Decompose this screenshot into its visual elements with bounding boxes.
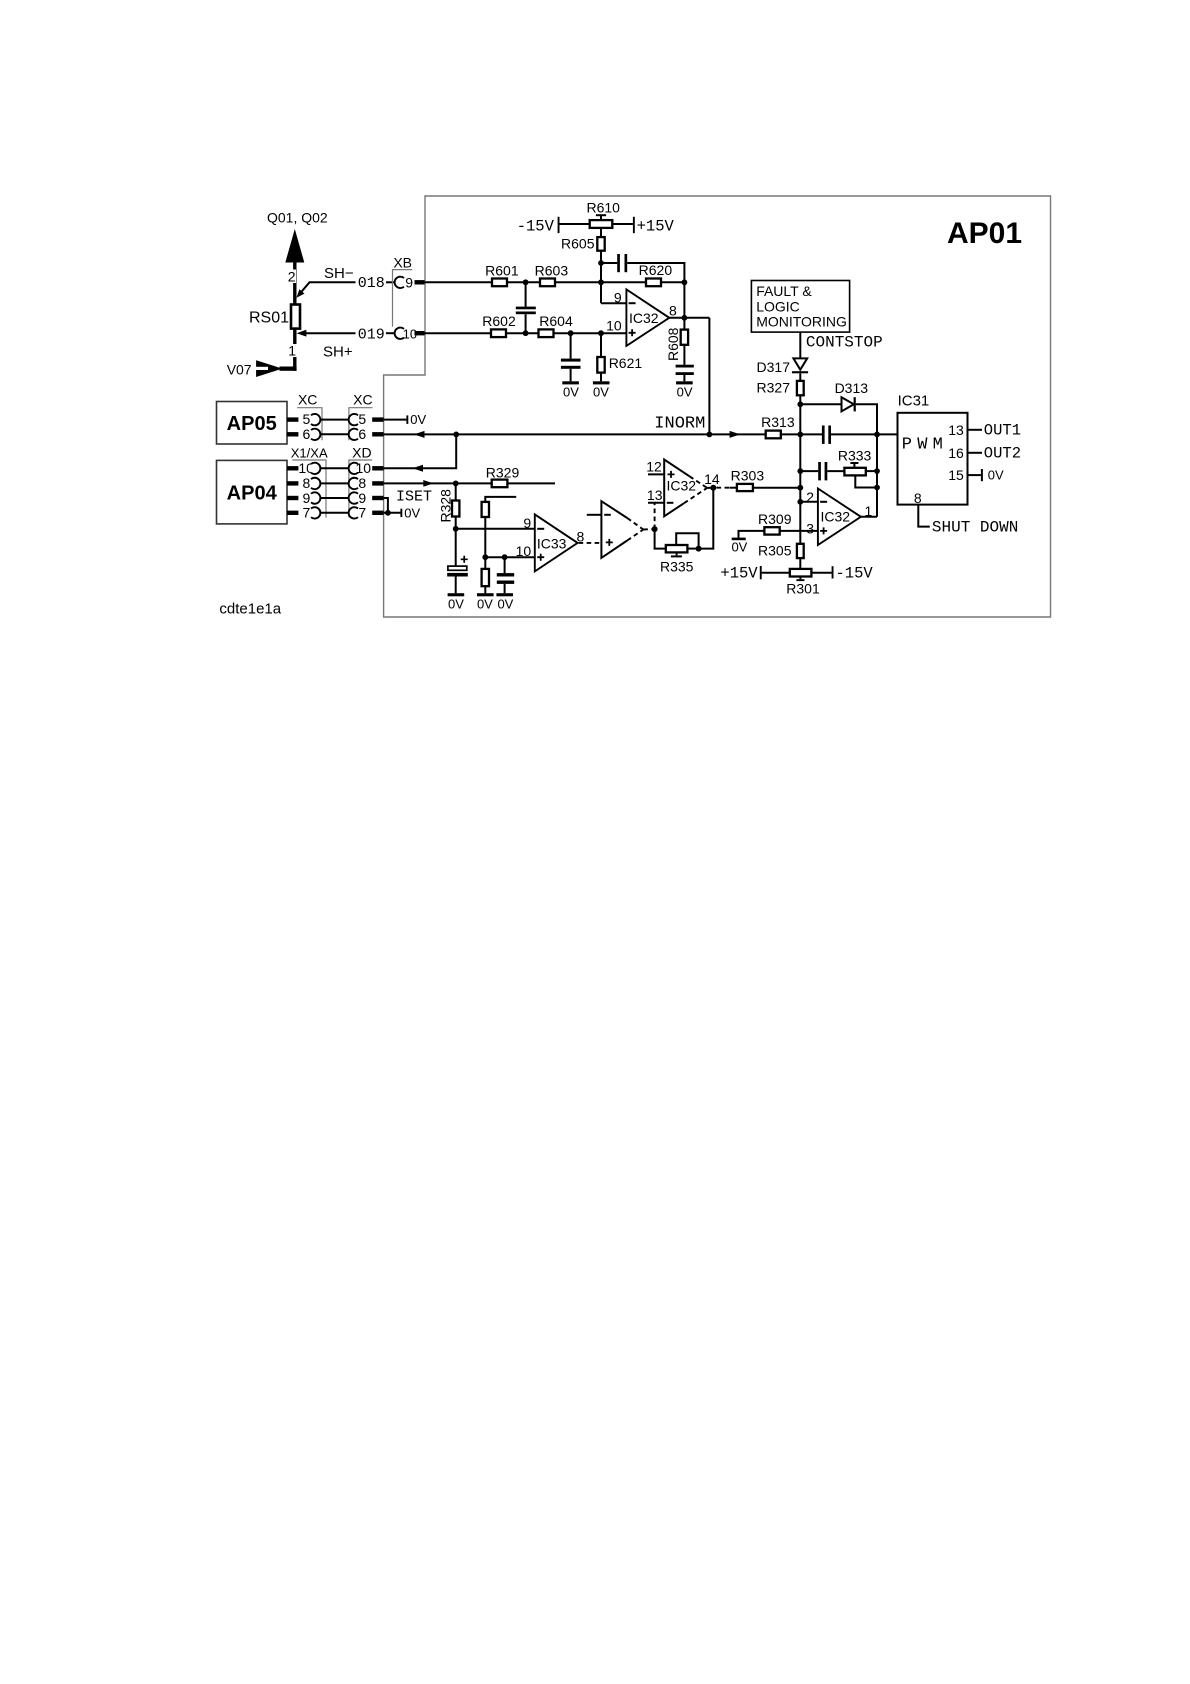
svg-text:INORM: INORM xyxy=(654,414,705,433)
junction pin9 node xyxy=(598,279,604,285)
svg-text:IC32: IC32 xyxy=(629,310,659,326)
arrowhead to XD10 xyxy=(412,465,423,472)
svg-text:7: 7 xyxy=(358,505,366,521)
arrowhead ISET xyxy=(423,480,433,487)
arrow to Q01,Q02 xyxy=(285,229,304,263)
svg-text:8: 8 xyxy=(358,475,366,491)
wire R604 to IC32 pin10 xyxy=(554,332,627,334)
wire XC5 xyxy=(320,419,349,421)
wire XC6 xyxy=(320,433,349,435)
diode D313 xyxy=(842,397,854,411)
svg-text:R605: R605 xyxy=(561,236,595,252)
svg-text:019: 019 xyxy=(358,326,385,343)
svg-text:8: 8 xyxy=(669,302,677,318)
wire phantom to R335 xyxy=(655,529,666,549)
svg-text:PWM: PWM xyxy=(902,436,948,455)
svg-text:9: 9 xyxy=(614,289,622,305)
resistor divider stub xyxy=(485,497,516,502)
svg-text:SH−: SH− xyxy=(324,265,354,282)
pin XD10 right xyxy=(349,463,358,474)
resistor R lower xyxy=(482,569,489,586)
svg-text:IC33: IC33 xyxy=(537,535,567,551)
wire XD10 INORM branch xyxy=(384,434,457,468)
svg-text:R621: R621 xyxy=(609,355,643,371)
svg-text:R602: R602 xyxy=(482,313,516,329)
wire to IC33 pin9 xyxy=(456,528,535,530)
svg-text:0V: 0V xyxy=(410,412,426,427)
svg-text:RS01: RS01 xyxy=(249,310,289,327)
ground under R621 xyxy=(593,381,610,384)
op-amp phantom buffer xyxy=(601,501,627,558)
wire 018 to XB9 xyxy=(386,281,395,283)
svg-text:9: 9 xyxy=(358,490,366,506)
svg-text:R328: R328 xyxy=(437,489,453,523)
op-amp IC32 pins 12,13,14 xyxy=(664,460,689,517)
block AP04 xyxy=(217,460,288,524)
junction divider node xyxy=(482,554,488,560)
adjust mark R301 xyxy=(799,577,801,580)
junction feedback column row1 xyxy=(682,279,688,285)
svg-text:-15V: -15V xyxy=(517,217,555,235)
junction XD7 node xyxy=(385,510,391,516)
wire R305 to R301 xyxy=(799,558,801,569)
wire R333 to output column xyxy=(866,470,877,472)
svg-text:8: 8 xyxy=(303,475,311,491)
wire D317 to R327 xyxy=(799,373,801,381)
svg-text:0V: 0V xyxy=(497,596,513,611)
wire XD10 xyxy=(320,467,349,469)
svg-text:XB: XB xyxy=(393,254,412,270)
wire XD9 to XD7 link xyxy=(384,498,388,513)
svg-text:0V: 0V xyxy=(448,596,464,611)
pin XD7 right xyxy=(349,507,358,518)
wire XB10 to R602 xyxy=(425,332,492,334)
svg-text:9: 9 xyxy=(523,515,531,531)
pin XD10 left xyxy=(287,466,298,470)
resistor R601 xyxy=(492,279,507,287)
svg-text:XC: XC xyxy=(353,392,372,408)
node B junction xyxy=(523,279,529,285)
svg-text:R327: R327 xyxy=(757,379,791,395)
svg-text:9: 9 xyxy=(405,274,413,290)
svg-text:D317: D317 xyxy=(757,359,791,375)
svg-text:14: 14 xyxy=(704,471,720,487)
junction pin8 xyxy=(682,315,688,321)
svg-text:0V: 0V xyxy=(593,384,609,399)
wire R303 to pin2 node xyxy=(753,487,800,489)
connector XB pin 10 xyxy=(395,328,404,339)
resistor R303 xyxy=(737,484,753,491)
rail -15V R301 xyxy=(811,572,831,574)
plus phantom xyxy=(606,539,613,546)
potentiometer R333 xyxy=(844,468,865,476)
svg-text:IC31: IC31 xyxy=(898,393,930,410)
svg-text:AP04: AP04 xyxy=(227,482,278,504)
svg-text:R313: R313 xyxy=(761,414,795,430)
svg-text:D313: D313 xyxy=(835,380,869,396)
svg-text:X1/XA: X1/XA xyxy=(291,445,328,460)
resistor R328 xyxy=(455,483,457,500)
svg-text:0V: 0V xyxy=(731,540,747,555)
wire to IC33 pin10 xyxy=(485,556,535,558)
resistor R603 xyxy=(540,279,555,287)
svg-text:R309: R309 xyxy=(758,511,792,527)
capacitor C602 xyxy=(570,333,572,359)
wire R333 wiper link xyxy=(855,475,877,487)
pin XD9 left xyxy=(287,496,298,500)
wire 019 to XB10 xyxy=(386,332,395,334)
wire C603 to feedback column xyxy=(627,263,684,318)
wire XD8 xyxy=(320,482,349,484)
svg-text:8: 8 xyxy=(914,490,922,506)
minus pin9 xyxy=(629,302,636,304)
wire SHUT DOWN xyxy=(918,505,930,527)
svg-text:018: 018 xyxy=(358,275,385,292)
pin XC6 right xyxy=(349,429,358,440)
wire shaft RS01 bottom xyxy=(293,329,296,371)
pin XC5 right xyxy=(349,414,358,425)
resistor R604 xyxy=(539,329,554,337)
wire SH- diagonal tap xyxy=(301,282,356,292)
pin 2 of RS01 xyxy=(288,270,297,284)
svg-text:5: 5 xyxy=(303,411,311,427)
svg-text:SHUT DOWN: SHUT DOWN xyxy=(932,519,1018,537)
ground under C602 xyxy=(562,381,579,384)
svg-text:R303: R303 xyxy=(731,468,765,484)
capacitor C313 xyxy=(822,426,825,444)
wire shaft RS01 top xyxy=(293,263,296,305)
wire pin9 into op-amp xyxy=(601,302,626,304)
connector XB pin 9 xyxy=(395,277,404,288)
arrowhead to XC6 xyxy=(414,431,425,438)
svg-text:IC32: IC32 xyxy=(667,478,697,494)
capacitor C333 xyxy=(800,470,818,472)
svg-text:15: 15 xyxy=(948,467,964,483)
op-amp IC33 xyxy=(535,514,578,571)
wire pin14 xyxy=(707,487,713,489)
junction R621 top xyxy=(598,330,604,336)
pin XC5 left xyxy=(287,417,298,421)
wire R610 to +15V xyxy=(612,223,633,225)
pin 1 of RS01 xyxy=(289,344,297,357)
junction C33 top xyxy=(502,554,508,560)
pin XD9 right xyxy=(349,492,358,503)
arrow V07 xyxy=(256,360,282,377)
svg-text:R610: R610 xyxy=(586,200,620,216)
svg-text:XD: XD xyxy=(352,444,371,460)
wire error node column xyxy=(799,404,801,544)
svg-text:R335: R335 xyxy=(660,559,694,575)
wire INORM feed down xyxy=(708,318,710,435)
svg-text:12: 12 xyxy=(646,459,662,475)
op-amp IC32 pins 2,3,1 xyxy=(818,489,861,546)
capacitor C601 between lines xyxy=(525,282,527,307)
wire D313 to output column xyxy=(856,404,877,517)
wire R620 to feedback column xyxy=(661,281,684,283)
svg-text:R620: R620 xyxy=(639,262,673,278)
wire R309 to pin3 xyxy=(780,530,818,532)
svg-text:Q01, Q02: Q01, Q02 xyxy=(267,210,328,226)
arrowhead INORM to R313 xyxy=(730,431,741,438)
wire pin2 xyxy=(800,501,818,503)
svg-text:OUT1: OUT1 xyxy=(984,422,1021,440)
svg-text:CONTSTOP: CONTSTOP xyxy=(806,333,883,351)
wire to D313 xyxy=(800,403,841,405)
svg-text:6: 6 xyxy=(303,426,311,442)
wire dashed pin14 to R303 xyxy=(717,487,732,489)
wire XD7 to 0V xyxy=(384,512,401,514)
wire node A to C603 xyxy=(601,262,617,264)
svg-text:2: 2 xyxy=(806,489,814,505)
svg-text:6: 6 xyxy=(358,426,366,442)
resistor R620 xyxy=(646,279,661,287)
svg-text:0V: 0V xyxy=(477,596,493,611)
node A junction xyxy=(598,260,604,266)
svg-text:16: 16 xyxy=(948,445,964,461)
wire R313 to C313 xyxy=(781,433,822,435)
svg-text:OUT2: OUT2 xyxy=(984,445,1021,463)
AP01 card outline xyxy=(384,196,1051,617)
resistor R605 xyxy=(597,237,604,251)
wire -15V to R610 xyxy=(560,223,590,225)
svg-text:0V: 0V xyxy=(563,384,579,399)
wire XD7 xyxy=(320,512,349,514)
wire R327 down xyxy=(799,395,801,404)
svg-text:SH+: SH+ xyxy=(323,344,353,361)
rail +15V xyxy=(633,217,635,233)
ground under divider xyxy=(477,593,494,596)
svg-text:R333: R333 xyxy=(838,447,872,463)
junction C601 bottom xyxy=(523,330,529,336)
op-amp IC32 pins 9,10,8 xyxy=(626,289,669,346)
wire pin8 output xyxy=(669,317,709,319)
pin XD7 left xyxy=(287,511,298,515)
plus pin10 xyxy=(629,329,636,336)
svg-text:5: 5 xyxy=(358,411,366,427)
pin XC6 left xyxy=(287,432,298,436)
wire pin1 output xyxy=(861,516,877,518)
wire R603 to pin9 node xyxy=(555,281,646,283)
ground under C608 xyxy=(676,381,693,384)
svg-text:13: 13 xyxy=(948,422,964,438)
wire phantom output dashed xyxy=(643,528,654,530)
potentiometer R335 xyxy=(666,545,688,552)
svg-text:2: 2 xyxy=(288,269,296,285)
wire IC33 output dashed xyxy=(579,542,602,544)
svg-text:10: 10 xyxy=(606,317,622,333)
svg-text:R601: R601 xyxy=(485,262,519,278)
svg-text:V07: V07 xyxy=(227,362,252,378)
svg-text:R604: R604 xyxy=(539,313,573,329)
arrowhead SH- xyxy=(296,289,304,298)
wire XB9 to R601 xyxy=(425,281,493,283)
svg-text:MONITORING: MONITORING xyxy=(756,314,847,330)
svg-text:R608: R608 xyxy=(665,327,681,361)
capacitor C33 xyxy=(504,557,506,573)
svg-text:LOGIC: LOGIC xyxy=(756,298,800,314)
wire R610 wiper down xyxy=(600,228,602,237)
svg-text:R329: R329 xyxy=(486,464,520,480)
potentiometer R301 xyxy=(790,569,812,577)
wire R329 stub xyxy=(507,482,555,484)
svg-text:1: 1 xyxy=(288,343,296,359)
svg-text:R305: R305 xyxy=(758,542,792,558)
adjust mark R335 xyxy=(676,552,678,555)
svg-text:cdte1e1a: cdte1e1a xyxy=(219,601,281,618)
wire CONTSTOP xyxy=(799,332,801,358)
svg-text:R301: R301 xyxy=(786,580,820,596)
junction R328 bottom xyxy=(453,526,459,532)
svg-text:10: 10 xyxy=(516,543,532,559)
svg-text:10: 10 xyxy=(356,460,372,476)
wire dashed to pin13 xyxy=(654,503,656,529)
minus stub phantom xyxy=(587,514,602,516)
resistor R upper xyxy=(482,502,489,517)
pin XD8 right xyxy=(349,478,358,489)
junction output column row1 xyxy=(874,432,880,438)
svg-text:13: 13 xyxy=(647,487,663,503)
wire feedback column xyxy=(699,488,714,549)
capacitor C608 xyxy=(676,365,694,368)
pin XD8 left xyxy=(287,481,298,485)
svg-text:ISET: ISET xyxy=(396,489,432,506)
svg-text:3: 3 xyxy=(806,520,814,536)
wire INORM bus xyxy=(384,433,766,435)
resistor R305 xyxy=(797,544,804,558)
svg-text:-15V: -15V xyxy=(836,565,874,583)
svg-text:+15V: +15V xyxy=(637,217,675,235)
svg-text:AP01: AP01 xyxy=(947,217,1022,250)
wire R335 wiper link xyxy=(676,533,698,548)
svg-text:R603: R603 xyxy=(535,262,569,278)
resistor R329 xyxy=(492,480,508,488)
wire C313 to PWM xyxy=(831,433,898,435)
capacitor C603 xyxy=(617,254,620,272)
block PWM IC31 xyxy=(898,413,968,505)
svg-text:+15V: +15V xyxy=(720,565,758,583)
junction error node top xyxy=(797,432,803,438)
svg-text:FAULT &: FAULT & xyxy=(756,283,812,299)
junction ISET node xyxy=(453,481,459,487)
junction C602 top xyxy=(568,330,574,336)
junction INORM branch xyxy=(453,432,459,438)
wire XD9 xyxy=(320,497,349,499)
potentiometer R610 xyxy=(590,220,613,228)
svg-text:0V: 0V xyxy=(988,468,1004,483)
block FAULT & LOGIC MONITORING xyxy=(751,281,849,333)
junction R327 bottom xyxy=(797,401,803,407)
ground under C328 xyxy=(448,593,465,596)
wire R605 to node A xyxy=(600,251,602,304)
junction INORM column xyxy=(707,432,713,438)
svg-text:XC: XC xyxy=(298,392,317,408)
resistor RS01 xyxy=(291,305,300,329)
wire XC5 to 0V xyxy=(384,419,407,421)
svg-text:0V: 0V xyxy=(404,505,420,520)
svg-text:0V: 0V xyxy=(677,384,693,399)
block AP05 xyxy=(217,402,288,445)
wire R601 to R603 xyxy=(507,281,540,283)
diode D317 xyxy=(793,358,807,369)
wire R602 to R604 xyxy=(506,332,539,334)
capacitor C328 electrolytic xyxy=(455,529,457,566)
resistor R313 xyxy=(766,431,781,439)
svg-text:AP05: AP05 xyxy=(227,413,277,435)
wire R335 right xyxy=(687,548,698,550)
junction row2 xyxy=(797,468,803,474)
arrowhead SH+ xyxy=(297,330,307,337)
resistor R327 xyxy=(797,381,804,395)
wire SH+ xyxy=(306,332,356,334)
ground under C33 xyxy=(496,593,513,596)
ground R309 xyxy=(739,531,765,538)
svg-text:IC32: IC32 xyxy=(821,508,851,524)
resistor R608 xyxy=(683,318,685,330)
svg-text:9: 9 xyxy=(303,490,311,506)
resistor R602 xyxy=(491,329,506,337)
junction phantom output xyxy=(652,526,658,532)
resistor R621 xyxy=(600,333,602,357)
wire ISET xyxy=(384,482,492,484)
svg-text:7: 7 xyxy=(303,505,311,521)
